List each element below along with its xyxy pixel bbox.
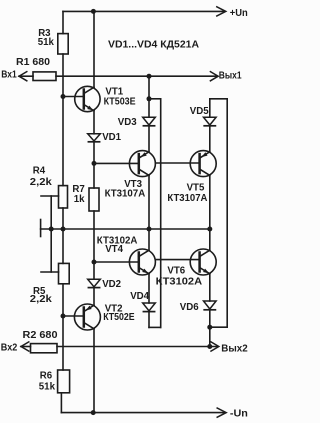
label R2 680 — [23, 330, 58, 341]
label R6 value 51k — [39, 381, 56, 392]
transistor VT6 — [190, 249, 216, 275]
wire VT2 base lead — [63, 315, 84, 317]
svg-text:2,2k: 2,2k — [30, 177, 53, 188]
svg-text:2,2k: 2,2k — [30, 294, 53, 305]
wire middle bus — [41, 228, 210, 230]
node VT1 base junction — [61, 94, 66, 99]
diode VD1 — [88, 134, 101, 142]
svg-text:Вх1: Вх1 — [1, 70, 17, 81]
label VT6 — [167, 265, 185, 276]
wire output2 line — [57, 346, 217, 348]
svg-text:R4: R4 — [33, 166, 46, 177]
label VT1 — [105, 86, 123, 97]
node R4/R5 bus junction — [61, 227, 66, 232]
wire R3 to VT1 base node — [62, 54, 64, 97]
-Un arrow terminal — [217, 408, 226, 417]
wire output1 line — [56, 75, 216, 77]
svg-text:VD3: VD3 — [118, 117, 137, 128]
diode VD6 — [204, 301, 217, 310]
label VT5 type KT3107A — [167, 193, 207, 204]
svg-text:КТ502Е: КТ502Е — [103, 312, 135, 323]
transistor VT5 — [190, 151, 216, 177]
wire VT2 collector to bottom rail — [93, 329, 95, 413]
Bx1 input arrow — [19, 72, 33, 81]
node VT2 base junction — [61, 314, 66, 319]
label VD6 — [180, 302, 199, 313]
label Vyh1 — [219, 71, 242, 82]
label VD1 — [102, 132, 121, 143]
wire VT3 base lead — [94, 162, 139, 164]
label VT5 — [187, 183, 205, 194]
wire bus to R5 — [62, 229, 64, 263]
wire VT4 base node to VD2 — [93, 262, 95, 279]
wire bottom -Un rail — [61, 412, 224, 414]
diode VD5 — [204, 117, 217, 126]
wire base column to R4 — [62, 97, 64, 186]
resistor R6 — [58, 370, 70, 393]
label VD2 — [102, 279, 121, 290]
svg-text:VD1: VD1 — [102, 132, 121, 143]
node bottom rail / VT2 collector junction — [91, 410, 96, 415]
svg-text:КТ503Е: КТ503Е — [104, 96, 136, 107]
svg-text:Вых1: Вых1 — [219, 71, 242, 82]
label Bx2 — [1, 342, 18, 353]
svg-text:VT5: VT5 — [187, 183, 205, 194]
wire VD2 to VT2 emitter — [93, 288, 95, 306]
wire bus to VT4 collector — [148, 229, 150, 250]
Bx2 input arrow — [21, 342, 31, 351]
label Bx1 — [1, 70, 17, 81]
svg-text:VD4: VD4 — [130, 291, 149, 302]
label VT3 — [124, 179, 142, 190]
svg-text:R2 680: R2 680 — [23, 330, 58, 341]
wire right loop bottom — [210, 326, 227, 328]
wire staple to VD5 — [209, 99, 211, 117]
node VT4 base junction — [92, 260, 97, 265]
svg-text:КТ3107А: КТ3107А — [167, 193, 207, 204]
label R3 — [38, 28, 51, 39]
wire R5 to VT2 base node — [62, 284, 64, 316]
wire tap column — [50, 196, 52, 272]
Vyh1 arrow terminal — [210, 72, 218, 81]
transistor VT3 — [129, 151, 155, 177]
label VT4 type KT3102A — [97, 235, 138, 246]
Vyh2 arrow terminal — [211, 342, 219, 351]
wire VD5 to VT5 emitter — [209, 126, 211, 152]
label R4 — [33, 166, 46, 177]
wire Vyh1 node down to stub node — [148, 76, 150, 99]
wire VT2 base node to R6 — [62, 316, 64, 370]
svg-text:VD1...VD4 КД521А: VD1...VD4 КД521А — [108, 40, 199, 51]
wire VT3 collector to bus — [148, 176, 150, 229]
wire top +Un rail — [63, 10, 224, 12]
node stub junction — [147, 96, 152, 101]
diode VD3 — [143, 117, 156, 126]
wire VD4 to loop bottom corner — [149, 312, 161, 328]
resistor R7 — [89, 188, 99, 211]
label VT4 — [105, 244, 123, 255]
svg-text:VT4: VT4 — [105, 244, 123, 255]
wire VT1 base lead — [63, 96, 84, 98]
svg-text:VD6: VD6 — [180, 302, 199, 313]
svg-text:VD2: VD2 — [102, 279, 121, 290]
svg-text:-Un: -Un — [230, 408, 248, 419]
node tap to bus — [49, 227, 54, 232]
label R5 value 2,2k — [30, 294, 53, 305]
transistor VT4 — [129, 249, 155, 275]
wire VT4 base lead — [94, 261, 139, 263]
svg-text:VD5: VD5 — [190, 106, 209, 117]
node VD6 / right loop junction — [207, 325, 212, 330]
wire VT5 base feed from VT3 — [155, 162, 199, 164]
label -Un — [230, 408, 248, 419]
label VD1...VD4 KD521A — [108, 40, 199, 51]
label VT6 type KT3102A — [156, 276, 203, 287]
bus left terminal tick — [40, 220, 42, 237]
label VT1 type KT503E — [104, 96, 136, 107]
wire stub to loop column — [149, 98, 161, 100]
label VT2 — [105, 304, 123, 315]
svg-text:Вых2: Вых2 — [221, 343, 247, 354]
wire VD6 to loop node — [209, 310, 211, 327]
label VT2 type KT502E — [103, 312, 135, 323]
wire R5 tap stub — [41, 271, 59, 273]
wire R7 across bus to VT4 base node — [93, 211, 95, 262]
label VD5 — [190, 106, 209, 117]
svg-text:R1 680: R1 680 — [16, 57, 50, 68]
svg-text:Вх2: Вх2 — [1, 342, 18, 353]
wire VD5 staple top — [210, 98, 227, 100]
svg-text:КТ3102А: КТ3102А — [156, 276, 203, 287]
diode VD4 — [143, 303, 156, 312]
wire loop column down — [160, 99, 162, 328]
node VT3/VT4 collectors bus junction — [147, 227, 152, 232]
wire base node to R7 — [93, 163, 95, 188]
resistor R2 — [31, 344, 58, 353]
wire bus to VT6 collector — [209, 229, 211, 250]
wire VD3 to VT3 emitter — [148, 126, 150, 152]
wire loop node down to Vyh2 line — [209, 327, 211, 346]
node VT5/VT6 collectors bus junction — [207, 227, 212, 232]
label VD3 — [118, 117, 137, 128]
wire stub node to VD3 — [148, 99, 150, 117]
svg-text:+Un: +Un — [230, 8, 248, 19]
svg-text:R6: R6 — [40, 370, 53, 381]
svg-text:51k: 51k — [38, 37, 55, 48]
node VT3 base junction — [92, 161, 97, 166]
wire VD1 to VT3 base node — [93, 142, 95, 164]
label VT3 type KT3107A — [105, 188, 146, 199]
wire VT6 emitter to VD6 — [209, 274, 211, 301]
wire VT1 collector to +Un rail — [93, 11, 95, 87]
label R6 — [40, 370, 53, 381]
wire VT6 base feed from VT4 — [155, 259, 199, 261]
resistor R5 (tapped) — [59, 263, 70, 283]
wire top rail corner to R3 — [62, 11, 64, 33]
resistor R1 — [33, 72, 56, 81]
label +Un — [230, 8, 248, 19]
label R4 value 2,2k — [30, 177, 53, 188]
resistor R3 — [58, 34, 68, 54]
wire R4 to bus — [62, 208, 64, 229]
wire VT1 emitter to VD1 — [93, 111, 95, 134]
resistor R4 (tapped) — [59, 186, 68, 208]
node Vyh2 / VD6 branch — [207, 344, 212, 349]
label Vyh2 — [221, 343, 247, 354]
wire R6 to bottom rail — [60, 393, 62, 413]
svg-text:51k: 51k — [39, 381, 56, 392]
node top rail / VT1 collector junction — [91, 9, 96, 14]
wire VT5 collector to bus — [209, 176, 211, 229]
transistor VT2 — [74, 304, 100, 330]
svg-text:VT6: VT6 — [167, 265, 185, 276]
transistor VT1 — [75, 86, 100, 111]
label R1 680 — [16, 57, 50, 68]
label R7 value 1k — [74, 194, 85, 205]
wire right loop column — [226, 99, 228, 327]
label R3 value 51k — [38, 37, 55, 48]
svg-text:1k: 1k — [74, 194, 85, 205]
svg-text:КТ3107А: КТ3107А — [105, 188, 146, 199]
+Un arrow terminal — [217, 7, 226, 16]
wire VT4 emitter to VD4 — [148, 274, 150, 303]
label VD4 — [130, 291, 149, 302]
node Vyh1 / VD3 — [147, 74, 152, 79]
label R5 — [33, 286, 46, 297]
label R7 — [72, 184, 84, 195]
diode VD2 — [88, 279, 101, 287]
wire R4 tap stub — [41, 195, 59, 197]
